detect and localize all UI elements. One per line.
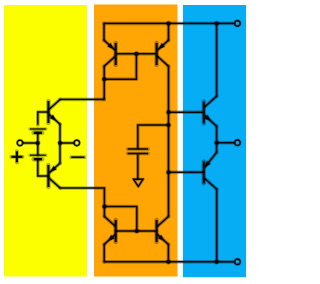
transistor Q6 (current-mirror NPN, right) bbox=[157, 216, 169, 244]
V+ supply terminal bbox=[235, 21, 241, 27]
wire Q1 collector to node A bbox=[60, 98, 104, 102]
transistor Q7 (output NPN) bbox=[204, 96, 217, 126]
wire V+ rail bbox=[104, 22, 234, 26]
node: top mirror bases junction bbox=[134, 51, 140, 57]
battery V2 bottom plate bbox=[34, 157, 42, 162]
wire Q7 emitter to output node bbox=[215, 126, 219, 143]
wire Q4 emitter to V+ rail bbox=[167, 23, 171, 40]
wire Q7 collector to V+ rail bbox=[215, 23, 219, 96]
wire to noninverting input terminal bbox=[60, 141, 74, 145]
wire Q6 emitter to V- rail bbox=[167, 244, 171, 261]
battery V1 bottom plate bbox=[34, 130, 42, 135]
transistor Q8 (output PNP) emitter arrow bbox=[205, 161, 210, 167]
wire output node to Q8 emitter bbox=[215, 143, 219, 153]
node: V- rail / Q6 emitter junction bbox=[166, 259, 172, 265]
wire Q7 base bbox=[169, 110, 204, 114]
wire to inverting input terminal bbox=[23, 141, 38, 145]
wire V- rail bbox=[104, 260, 234, 264]
transistor Q2 (input PNP) emitter arrow bbox=[51, 166, 57, 171]
wire Q3-Q4 base tie bbox=[116, 52, 157, 56]
node: emitters / noninverting input junction bbox=[57, 140, 63, 146]
transistor Q3 (current-mirror PNP, left) bbox=[104, 40, 116, 66]
V- supply terminal bbox=[235, 259, 241, 265]
node B: Q5 collector / mirror input junction bbox=[102, 204, 108, 210]
wire Q3 collector down to node A bbox=[102, 66, 106, 99]
transistor Q1 (input NPN) bbox=[48, 99, 60, 124]
node: output junction bbox=[214, 140, 220, 146]
node: gain node / C1 junction bbox=[166, 122, 172, 128]
wire capacitor C1 to ground bbox=[136, 155, 140, 180]
transistor Q1 (input NPN) emitter arrow bbox=[50, 115, 56, 120]
node: gain node / Q8 base junction bbox=[166, 170, 172, 176]
transistor Q2 (input PNP) bbox=[48, 163, 60, 188]
transistor Q4 (current-mirror PNP, right) bbox=[157, 40, 169, 66]
wire Q8 collector to V- rail bbox=[215, 189, 219, 262]
wire node A to top mirror bases bbox=[104, 54, 136, 79]
label + (noninverting marking) bbox=[11, 151, 22, 162]
wire Q8 base bbox=[169, 171, 204, 175]
transistor Q6 (current-mirror NPN, right) emitter arrow bbox=[159, 235, 165, 240]
capacitor C1 top plate bbox=[128, 147, 148, 151]
wire Q1 base to battery stack bbox=[38, 112, 49, 125]
node A: Q3 collector / mirror input junction bbox=[101, 76, 107, 82]
capacitor C1 bottom plate bbox=[128, 152, 148, 156]
node: battery midpoint / inverting input junction bbox=[35, 140, 41, 146]
wire emitters tie bbox=[58, 124, 62, 163]
transistor Q3 (current-mirror PNP, left) emitter arrow bbox=[108, 43, 114, 48]
wire node B to bottom mirror bases bbox=[104, 207, 136, 232]
inverting input terminal bbox=[17, 140, 23, 146]
battery V2 top plate bbox=[30, 154, 46, 157]
wire battery V2 to Q2 base bbox=[38, 159, 49, 176]
wire to output terminal bbox=[217, 141, 235, 145]
transistor Q7 (output NPN) emitter arrow bbox=[205, 115, 211, 120]
output terminal bbox=[235, 140, 241, 146]
transistor Q8 (output PNP) bbox=[204, 152, 217, 189]
wire Q5-Q6 base tie bbox=[116, 229, 157, 233]
input stage region (yellow) bbox=[4, 5, 87, 277]
node: V- rail / Q8 collector junction bbox=[214, 259, 220, 265]
wire battery V2 top bbox=[36, 143, 40, 155]
wire Q3 emitter to V+ rail bbox=[102, 23, 106, 40]
wire node B down to Q5 collector bbox=[103, 207, 107, 217]
node: gain node / Q7 base junction bbox=[166, 109, 172, 115]
battery V1 top plate bbox=[30, 127, 46, 130]
node: V+ rail / Q7 collector junction bbox=[214, 21, 220, 27]
node: V+ rail / Q4 emitter junction bbox=[166, 21, 172, 27]
noninverting input terminal bbox=[74, 140, 80, 146]
wire battery V1 to input node bbox=[36, 133, 40, 143]
output stage region (blue) bbox=[183, 5, 246, 277]
wire gain node to capacitor C1 bbox=[138, 125, 169, 148]
label - (inverting marking) bbox=[71, 155, 84, 159]
wire gain node (Q4 collector to Q6 collector) bbox=[167, 66, 171, 216]
gain stage region (orange) bbox=[94, 5, 178, 277]
ground bbox=[134, 179, 144, 186]
transistor Q5 (current-mirror NPN, left) bbox=[104, 216, 116, 244]
transistor Q5 (current-mirror NPN, left) emitter arrow bbox=[108, 235, 114, 240]
wire Q5 emitter to V- rail bbox=[102, 244, 106, 261]
transistor Q4 (current-mirror PNP, right) emitter arrow bbox=[159, 43, 165, 48]
wire Q2 collector to node B bbox=[60, 188, 104, 207]
node: bottom mirror bases junction bbox=[134, 228, 140, 234]
